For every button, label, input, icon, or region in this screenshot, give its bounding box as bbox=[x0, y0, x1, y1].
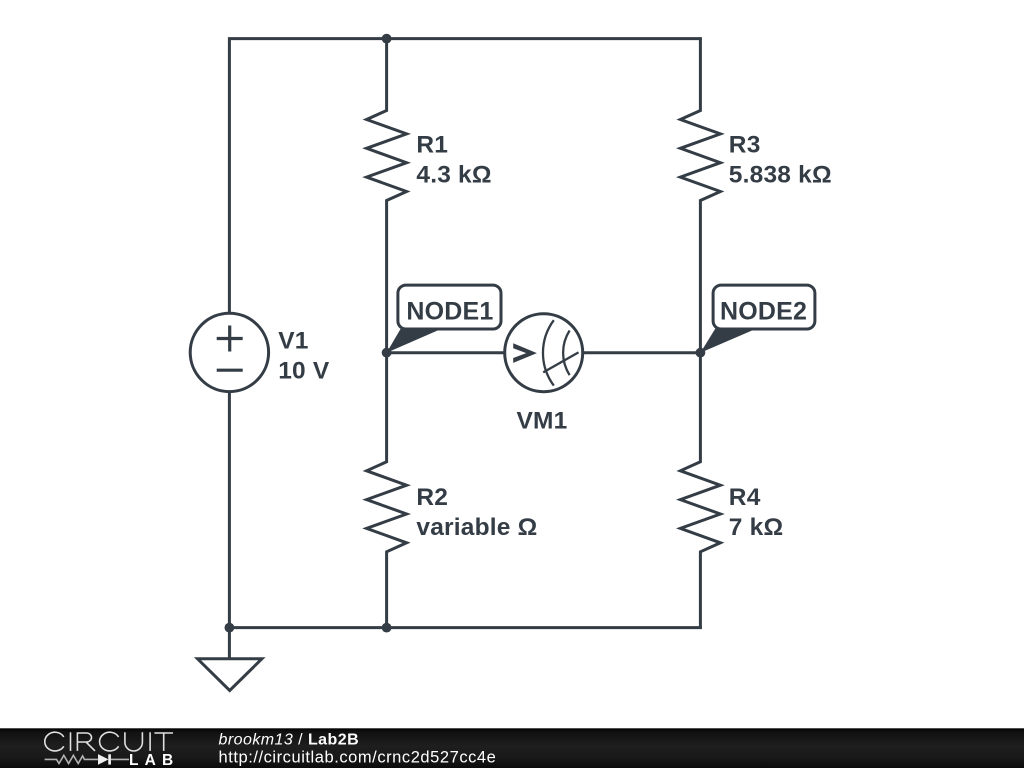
svg-text:10 V: 10 V bbox=[278, 357, 330, 384]
logo diode triangle bbox=[98, 754, 109, 765]
wire bottom-left loop bbox=[229, 391, 702, 627]
svg-text:R3: R3 bbox=[729, 131, 761, 158]
wire node1 to VM1 bbox=[387, 351, 506, 354]
svg-text:VM1: VM1 bbox=[517, 408, 568, 435]
junction dot bottom middle bbox=[382, 623, 392, 633]
voltage source V1 circle bbox=[190, 313, 268, 391]
svg-text:R4: R4 bbox=[729, 484, 761, 511]
svg-text:5.838 kΩ: 5.838 kΩ bbox=[729, 161, 832, 188]
wire VM1 to node2 bbox=[582, 351, 700, 354]
svg-text:LAB: LAB bbox=[129, 752, 179, 768]
voltmeter VM1 circle bbox=[505, 314, 583, 392]
junction dot node B (NODE2) bbox=[696, 348, 706, 358]
VM1 meter arc 2 bbox=[563, 331, 570, 376]
resistor R1 bbox=[367, 39, 407, 353]
svg-text:V1: V1 bbox=[278, 327, 308, 354]
VM1 meter arc 1 bbox=[543, 320, 554, 385]
svg-text:NODE2: NODE2 bbox=[720, 298, 807, 326]
ground triangle bbox=[198, 659, 262, 691]
node NODE2 callout tail bbox=[700, 328, 759, 353]
node NODE1 callout tail bbox=[387, 329, 441, 353]
node NODE2 callout box bbox=[713, 285, 815, 329]
V1 plus sign bbox=[217, 326, 243, 352]
footer bar bbox=[0, 728, 1024, 768]
resistor R2 bbox=[367, 353, 407, 628]
logo diode cathode bar bbox=[108, 754, 111, 764]
resistor R4 bbox=[680, 353, 720, 628]
VM1 chevron bbox=[513, 343, 537, 363]
VM1 meter needle bbox=[543, 352, 578, 372]
svg-text:http://circuitlab.com/crnc2d52: http://circuitlab.com/crnc2d527cc4e bbox=[219, 748, 497, 766]
svg-text:NODE1: NODE1 bbox=[406, 298, 493, 326]
ground stem bbox=[228, 628, 231, 659]
logo CIRCUIT thin letters bbox=[45, 732, 173, 751]
svg-text:brookm13 / Lab2B: brookm13 / Lab2B bbox=[219, 732, 360, 749]
svg-text:variable Ω: variable Ω bbox=[416, 514, 537, 541]
svg-text:R1: R1 bbox=[416, 131, 448, 158]
svg-text:7 kΩ: 7 kΩ bbox=[729, 514, 784, 541]
logo resistor-diode squiggle bbox=[45, 755, 129, 763]
junction dot ground bbox=[225, 623, 235, 633]
svg-text:4.3 kΩ: 4.3 kΩ bbox=[416, 161, 491, 188]
junction dot top bbox=[382, 34, 392, 44]
V1 minus sign bbox=[217, 369, 243, 372]
junction dot node A (NODE1) bbox=[382, 348, 392, 358]
wire top-left loop bbox=[229, 39, 702, 314]
svg-text:R2: R2 bbox=[416, 484, 448, 511]
resistor R3 bbox=[680, 39, 720, 353]
node NODE1 callout box bbox=[398, 285, 501, 329]
